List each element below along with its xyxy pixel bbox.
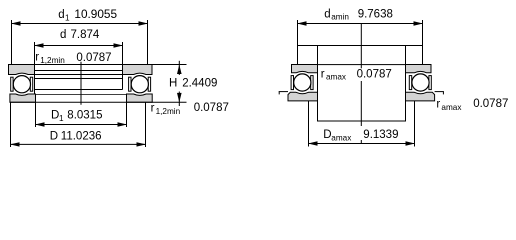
cage bit left of left ball bbox=[11, 77, 13, 91]
arrow D right bbox=[137, 142, 147, 146]
svg-text:amax: amax bbox=[441, 103, 461, 112]
svg-text:0.0787: 0.0787 bbox=[194, 102, 229, 114]
housing seat line right bbox=[435, 91, 444, 93]
bottom edge line full with H bottom extension bbox=[10, 101, 187, 103]
extension line D1 right bbox=[126, 102, 128, 127]
svg-text:d: d bbox=[324, 8, 330, 20]
H dimension arrow up bbox=[178, 61, 180, 75]
svg-text:0.0787: 0.0787 bbox=[76, 52, 111, 64]
dimension line Damax bbox=[309, 143, 415, 145]
arrow damin right bbox=[414, 21, 424, 25]
cage bit left of right ball bbox=[129, 77, 131, 91]
housing tick right bbox=[442, 92, 444, 95]
cage upper line bbox=[35, 78, 123, 80]
arrow Damax right bbox=[406, 141, 416, 145]
ball right bbox=[131, 76, 148, 93]
ball left bbox=[13, 76, 30, 93]
svg-text:0.0787: 0.0787 bbox=[473, 98, 508, 110]
far-side shoulder line in bore bbox=[35, 70, 123, 72]
shaft narrow section bbox=[318, 46, 406, 122]
bottom washer left piece bbox=[10, 94, 36, 102]
svg-text:1: 1 bbox=[65, 13, 70, 22]
top washer left (right figure) bbox=[292, 65, 318, 73]
far-side top line of bottom washer bbox=[36, 94, 127, 96]
cage lower line bbox=[35, 89, 123, 91]
far-side washer bottom line in bore bbox=[35, 74, 123, 76]
centerline right figure lower bbox=[360, 81, 362, 126]
svg-text:amax: amax bbox=[326, 73, 346, 82]
svg-text:10.9055: 10.9055 bbox=[74, 7, 117, 21]
arrow D1 right bbox=[118, 122, 128, 126]
svg-text:11.0236: 11.0236 bbox=[61, 131, 102, 143]
svg-text:H: H bbox=[169, 78, 177, 90]
centerline right figure upper bbox=[360, 24, 362, 69]
extension line D left bbox=[10, 102, 12, 147]
extension line damin right bbox=[422, 20, 424, 65]
svg-text:1: 1 bbox=[59, 114, 64, 123]
extension line Damax right bbox=[414, 101, 416, 147]
cage bit right of left ball (right figure) bbox=[311, 76, 313, 90]
extension line d left / top washer bore edge bbox=[34, 42, 36, 94]
svg-text:d: d bbox=[60, 29, 66, 41]
svg-text:9.7638: 9.7638 bbox=[358, 8, 393, 20]
bottom washer right piece bbox=[127, 94, 153, 102]
extension line D1 left bbox=[35, 102, 37, 127]
extension line d1 right bbox=[147, 20, 149, 65]
top washer left piece bbox=[9, 65, 35, 75]
arrow d1 right bbox=[139, 21, 149, 25]
svg-text:D: D bbox=[323, 129, 331, 141]
housing seat line left bbox=[279, 91, 288, 93]
svg-text:0.0787: 0.0787 bbox=[357, 69, 392, 81]
svg-text:7.874: 7.874 bbox=[71, 29, 100, 41]
arrow d right bbox=[114, 43, 124, 47]
arrow d1 left bbox=[11, 21, 21, 25]
arrow Damax left bbox=[308, 141, 318, 145]
svg-text:D: D bbox=[50, 131, 58, 143]
arrow damin left bbox=[297, 21, 307, 25]
centerline left figure bbox=[80, 62, 82, 105]
cage bit right of right ball (right figure) bbox=[429, 76, 431, 90]
svg-text:r: r bbox=[35, 52, 39, 64]
centerline right figure bottom tick bbox=[360, 140, 362, 144]
svg-text:r: r bbox=[321, 68, 325, 80]
dimension line D1 bbox=[36, 124, 127, 126]
cage bit left of right ball (right figure) bbox=[409, 76, 411, 90]
extension line damin left bbox=[297, 20, 299, 65]
extension line d1 left bbox=[11, 20, 13, 65]
arrow d left bbox=[34, 43, 44, 47]
svg-text:1,2min: 1,2min bbox=[40, 56, 65, 65]
cage bit right of right ball bbox=[148, 77, 150, 91]
ball right (right figure) bbox=[412, 74, 429, 91]
ball left (right figure) bbox=[294, 74, 311, 91]
svg-text:r: r bbox=[436, 99, 440, 111]
extension line d right / top washer bore edge bbox=[122, 42, 124, 90]
H dimension arrow down bbox=[178, 92, 180, 107]
dimension line D bbox=[11, 143, 146, 145]
extension line Damax left bbox=[308, 101, 310, 147]
dimension line damin bbox=[298, 23, 423, 25]
cage bit right of left ball bbox=[30, 77, 32, 91]
bottom washer right (right figure) with outer chamfer bbox=[406, 92, 435, 101]
top edge line full with H top extension bbox=[9, 64, 187, 66]
arrow D1 left bbox=[35, 122, 45, 126]
top washer right piece bbox=[123, 65, 153, 75]
housing tick left bbox=[278, 92, 280, 95]
svg-text:8.0315: 8.0315 bbox=[67, 110, 102, 122]
cage bit left of left ball (right figure) bbox=[291, 76, 293, 90]
bottom washer left (right figure) with outer chamfer bbox=[288, 92, 318, 101]
svg-text:amin: amin bbox=[331, 13, 349, 22]
top washer right (right figure) bbox=[406, 65, 432, 73]
svg-text:r: r bbox=[151, 103, 155, 115]
shaft shoulder slab bbox=[298, 46, 423, 65]
svg-text:d: d bbox=[58, 9, 64, 21]
extension line D right bbox=[145, 102, 147, 147]
dimension line d1 bbox=[12, 23, 148, 25]
svg-text:1,2min: 1,2min bbox=[156, 107, 181, 116]
dimension line d bbox=[35, 45, 123, 47]
svg-text:amax: amax bbox=[331, 134, 351, 143]
svg-text:9.1339: 9.1339 bbox=[363, 129, 398, 141]
svg-text:2.4409: 2.4409 bbox=[182, 78, 217, 90]
arrow D left bbox=[10, 142, 20, 146]
